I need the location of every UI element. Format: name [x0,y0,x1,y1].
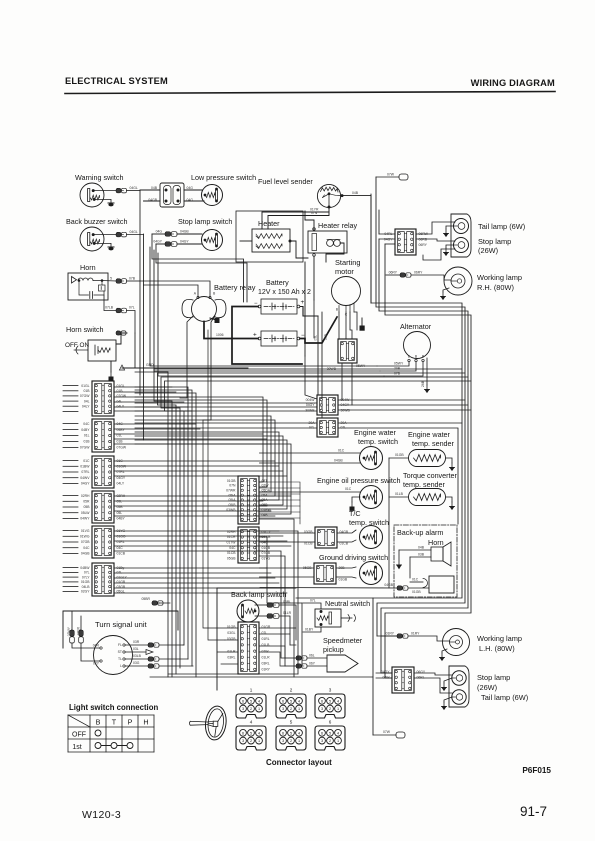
svg-text:07WR: 07WR [226,489,236,493]
tail lamp 6W bottom [452,690,528,704]
svg-text:01CB: 01CB [227,551,236,555]
connector box low pressure switch [148,183,193,207]
svg-text:6: 6 [321,699,323,703]
svg-text:1: 1 [337,739,339,743]
svg-text:3: 3 [282,739,284,743]
svg-text:05WY: 05WY [394,362,404,366]
working lamp LH [443,629,523,656]
svg-text:03L: 03L [133,647,139,651]
low pressure switch [191,173,256,206]
engine water temp sender [408,430,455,467]
svg-text:01LR: 01LR [227,649,236,653]
wire left block horizontal feeders [114,387,291,593]
connector block left y419 [80,419,127,452]
svg-text:01BW: 01BW [80,465,90,469]
svg-text:04B: 04B [418,546,425,550]
connector back lamp wire 2 [255,611,292,618]
svg-text:01CB: 01CB [117,552,126,556]
warning switch [75,173,123,207]
svg-text:Starting: Starting [335,258,360,267]
svg-text:OFF ON: OFF ON [65,342,90,349]
heater relay [308,221,358,256]
svg-text:Engine water: Engine water [408,430,451,439]
svg-text:Light switch connection: Light switch connection [69,703,158,712]
connector on stop lamp wire 2 [153,240,189,247]
svg-text:04C: 04C [117,546,124,550]
svg-text:T/C: T/C [349,509,361,518]
svg-text:1: 1 [298,707,300,711]
svg-text:07LY: 07LY [82,575,90,579]
svg-text:04GB: 04GB [81,552,90,556]
svg-text:Stop lamp: Stop lamp [477,673,510,682]
wire battery relay coil leads up-left [144,285,199,297]
wire stop lamp bus drops [152,234,244,302]
svg-text:04GB: 04GB [180,230,189,234]
svg-text:Stop lamp switch: Stop lamp switch [178,217,232,226]
engine oil pressure switch [317,476,401,509]
svg-text:07N: 07N [311,211,318,215]
svg-text:6: 6 [282,699,284,703]
svg-text:04GY: 04GY [180,240,189,244]
back-up alarm enclosure [394,525,457,597]
wire 07W stub top [376,173,408,181]
svg-text:3: 3 [282,707,284,711]
svg-text:4: 4 [337,731,339,735]
svg-text:04BY: 04BY [117,517,126,521]
svg-text:01VG: 01VG [81,529,90,533]
svg-text:2: 2 [329,739,331,743]
svg-text:1: 1 [258,707,260,711]
svg-text:07N: 07N [229,484,236,488]
svg-text:01B: 01B [117,440,124,444]
wire heater relay bottom down [313,256,315,300]
svg-text:05B: 05B [83,505,90,509]
svg-text:01RY: 01RY [411,632,420,636]
wire central lower block risers to bottom area [260,519,295,677]
svg-text:04R: 04R [93,644,100,648]
svg-text:01RY: 01RY [386,632,395,636]
svg-text:pickup: pickup [323,645,344,654]
heater [252,219,291,252]
wire misc crossing verticals [208,330,225,640]
svg-text:04GY: 04GY [153,240,162,244]
svg-text:03WY: 03WY [67,626,71,636]
T/C temp switch [349,509,389,549]
wire neutral switch output coupling [341,615,356,622]
connector block mid-right upper [305,395,350,415]
neutral switch [315,599,370,627]
connector layout block 5 [276,720,306,751]
wire speedmeter to bus [285,657,296,659]
connector back lamp wire 1 [255,600,291,607]
speedmeter pickup [323,636,363,672]
svg-text:T: T [112,718,117,727]
wire warning switch connector to bus [127,190,141,192]
connector block left y491 [80,491,125,523]
svg-text:06Y: 06Y [309,662,316,666]
wire ground driving switch leads [336,567,356,568]
svg-text:07L: 07L [310,599,316,603]
svg-text:1: 1 [337,707,339,711]
svg-text:04G: 04G [156,230,163,234]
svg-text:07GW: 07GW [80,446,90,450]
connector working lamp LH wire [386,632,421,639]
wire central block right feeders [260,482,301,524]
svg-text:01GLY: 01GLY [117,575,128,579]
wire horn connector to down bus [127,311,136,334]
wire turn signal left leads [72,643,100,648]
svg-text:5: 5 [250,731,252,735]
connector block back lamp area [227,622,271,674]
svg-text:04C: 04C [83,546,90,550]
wire horn upper output [102,277,116,282]
svg-text:3: 3 [321,707,323,711]
svg-text:04GL: 04GL [130,230,138,234]
svg-text:05IA: 05IA [229,498,237,502]
connector above turn signal [142,597,170,605]
wire risers to mid-right connector [317,316,319,395]
stop lamp switch [178,217,232,251]
svg-text:01LR: 01LR [283,611,292,615]
svg-text:01C: 01C [83,459,90,463]
svg-text:(26W): (26W) [477,683,497,692]
node A ground bus [119,363,248,370]
wire bus top-left verticals [139,190,141,395]
svg-text:5: 5 [250,699,252,703]
tail/stop lamp housing right top [451,214,471,257]
turn signal unit box [63,611,178,648]
svg-text:07LB: 07LB [105,306,114,310]
svg-text:Back lamp switch: Back lamp switch [231,590,287,599]
wire bottom lamp area left feeds [296,597,373,599]
connector block left y563 [80,563,127,596]
svg-text:06RY: 06RY [419,243,428,247]
connector layout block 4 [236,720,266,751]
svg-text:07B: 07B [129,277,136,281]
svg-text:Working lamp: Working lamp [477,634,522,643]
wire neutral-speedmeter left bus [301,603,303,666]
svg-text:03LB: 03LB [133,654,142,658]
horn switch [65,325,116,361]
svg-text:01CB: 01CB [262,546,271,550]
svg-text:01RL: 01RL [262,637,270,641]
svg-text:04G: 04G [187,186,194,190]
wire tail lamp feeds [416,222,455,234]
ground stop lamp right [444,245,454,255]
svg-text:Torque converter: Torque converter [403,471,458,480]
wire right highway bundle [371,177,471,735]
svg-text:temp. sender: temp. sender [412,439,455,448]
svg-text:01C: 01C [412,578,419,582]
starting motor [332,258,361,317]
svg-text:L: L [120,664,122,668]
fuse turn signal 1 [67,626,74,643]
wire right top connector feeds [379,233,395,235]
svg-text:03G: 03G [133,661,140,665]
svg-text:06RY: 06RY [389,271,398,275]
svg-text:07L: 07L [117,571,123,575]
svg-text:02RH: 02RH [227,530,236,534]
engine water temp switch [354,428,398,470]
svg-text:01C: 01C [345,487,352,491]
wire alternator B lead [380,362,416,371]
wire engine oil pressure switch lead [260,487,361,492]
svg-text:Low pressure switch: Low pressure switch [191,173,256,182]
svg-text:01GB: 01GB [339,578,348,582]
svg-text:Horn: Horn [80,263,96,272]
svg-text:04B: 04B [352,191,359,195]
svg-text:05LW: 05LW [81,511,90,515]
connector T/C temp switch [304,527,349,548]
wire alternator R lead [384,362,423,376]
svg-text:09L: 09L [117,500,123,504]
svg-text:Horn: Horn [428,538,444,547]
svg-text:Ground driving switch: Ground driving switch [319,553,388,562]
svg-text:01B: 01B [83,440,90,444]
svg-text:02Y: 02Y [93,662,100,666]
working lamp RH [444,267,522,295]
wire turn signal outputs join bundle [183,644,184,646]
ground horn switch [109,361,113,380]
connector block center upper [226,476,272,524]
back buzzer switch [66,217,128,251]
svg-text:5: 5 [290,720,293,725]
svg-text:01GB: 01GB [412,590,421,594]
svg-text:5: 5 [290,731,292,735]
wire bundle center verticals [135,397,291,514]
wire battery B1 positive riser [300,307,318,317]
svg-text:07W: 07W [383,730,391,734]
wire horn to horn switch [104,295,116,311]
svg-text:04BY: 04BY [117,428,126,432]
battery B1 12V [254,278,311,314]
svg-text:2: 2 [290,739,292,743]
wire torque converter sender lead [389,492,408,497]
svg-text:07L: 07L [129,306,135,310]
svg-text:6: 6 [242,699,244,703]
wire bottom bus to right [150,676,373,678]
svg-text:04GY: 04GY [81,482,90,486]
svg-text:H: H [143,718,148,727]
svg-text:6: 6 [329,720,332,725]
svg-text:07GB: 07GB [81,540,90,544]
horn back-up alarm [428,538,451,566]
svg-text:Tail lamp (6W): Tail lamp (6W) [481,693,528,702]
svg-text:6: 6 [242,731,244,735]
back lamp switch enclosure [217,588,296,690]
steering wheel [189,705,228,741]
wire back buzzer to connector [93,234,116,236]
wire back-up alarm horn leads [399,546,431,579]
svg-text:3: 3 [321,739,323,743]
svg-text:03RL: 03RL [262,661,270,665]
svg-text:01GL: 01GL [81,384,89,388]
svg-text:01WG: 01WG [80,535,90,539]
svg-text:05L: 05L [117,511,123,515]
svg-text:2: 2 [250,739,252,743]
svg-text:2: 2 [290,707,292,711]
svg-text:07B: 07B [324,333,328,340]
wire mid-right lower block spans [135,422,317,424]
wire stubs left of connector blocks [63,386,78,592]
ground tail lamp bottom [442,697,452,709]
svg-text:01L: 01L [84,434,90,438]
wire alternator ground lead 26B [421,358,427,387]
svg-text:(26W): (26W) [478,246,498,255]
connector starting motor [338,339,357,363]
svg-text:Warning switch: Warning switch [75,173,123,182]
svg-text:02GY: 02GY [81,590,90,594]
battery B2 12V [253,331,305,346]
wire battery relay lower leads down [187,316,193,380]
wire back lamp block feeders [260,627,297,629]
connector ground driving switch [303,563,348,584]
svg-text:+: + [301,299,305,306]
svg-text:01YG: 01YG [262,557,271,561]
svg-text:01B: 01B [117,389,124,393]
fuel level sender [258,177,341,208]
svg-text:01GB: 01GB [117,580,126,584]
svg-text:Heater: Heater [258,219,280,228]
svg-text:07B: 07B [394,372,401,376]
svg-text:ST: ST [118,650,122,654]
svg-text:1006: 1006 [216,333,224,337]
svg-text:05IA: 05IA [229,493,237,497]
svg-text:01GG: 01GG [117,535,126,539]
wire starting motor connector leads [327,363,366,405]
svg-text:2: 2 [250,707,252,711]
svg-text:01GW: 01GW [117,465,127,469]
svg-text:WIRING DIAGRAM: WIRING DIAGRAM [471,78,555,88]
connector turn signal FL [125,640,183,647]
svg-text:P: P [128,718,133,727]
svg-text:2: 2 [290,688,293,693]
svg-text:04C: 04C [229,546,236,550]
svg-text:TL: TL [118,657,122,661]
svg-text:07GB: 07GB [262,551,271,555]
torque converter temp sender [403,471,458,506]
connector on horn wire [105,306,135,313]
svg-text:20B: 20B [394,367,401,371]
fuse turn signal 2 [77,626,84,643]
wire heater relay coil to bus [326,243,344,262]
svg-text:Back-up alarm: Back-up alarm [397,528,443,537]
svg-text:04BY: 04BY [81,428,90,432]
svg-text:05GB: 05GB [227,557,236,561]
svg-text:6: 6 [321,731,323,735]
ground warning switch [94,199,114,206]
svg-text:04LY: 04LY [117,482,125,486]
wire battery relay to battery B2 positive 1006 [204,322,258,339]
wire bottom connector feeds [376,672,392,674]
connector layout block 2 [276,688,306,719]
connector block right top [384,229,429,255]
ground tail lamp right [444,226,454,236]
svg-text:3: 3 [242,739,244,743]
svg-text:OFF: OFF [72,732,86,739]
wire back-up alarm controller leads [260,578,429,595]
connector speedmeter wire 2 [296,662,327,669]
svg-text:P6F015: P6F015 [522,766,551,775]
svg-text:07GW: 07GW [80,394,90,398]
svg-text:07L: 07L [84,571,90,575]
ground working lamp RH [441,288,449,299]
arrow turn signal ST [125,647,153,655]
wire starting motor terminals down [338,312,340,339]
svg-text:4: 4 [258,731,260,735]
svg-text:02RH: 02RH [81,494,90,498]
svg-text:03R: 03R [133,640,140,644]
svg-text:temp. sender: temp. sender [403,480,446,489]
svg-text:01LB: 01LB [262,643,271,647]
tail lamp 6W right [454,219,526,234]
svg-text:Horn switch: Horn switch [66,325,104,334]
ground torque converter sender [446,497,454,509]
connector on horn switch wire [116,331,127,344]
ground starting motor [360,318,364,330]
wire back buzzer connector to bus [127,234,144,236]
horn [68,263,108,300]
header rule [65,92,555,94]
svg-text:Alternator: Alternator [400,322,432,331]
svg-text:1: 1 [258,739,260,743]
svg-text:01C: 01C [338,449,345,453]
ground engine water temp sender [446,458,454,470]
wire working lamp RH feed [386,274,400,276]
connector block left y381 [80,381,127,416]
svg-text:4: 4 [258,699,260,703]
svg-text:04BW: 04BW [80,566,90,570]
wire battery B1 negative loop [232,307,302,365]
stop/tail lamp housing bottom [449,666,469,707]
svg-text:Engine oil pressure switch: Engine oil pressure switch [317,476,401,485]
svg-text:Battery relay: Battery relay [214,283,256,292]
svg-text:004W: 004W [306,398,316,402]
ground working lamp LH [440,649,447,660]
connector on horn upper wire [116,277,140,284]
svg-text:ELECTRICAL SYSTEM: ELECTRICAL SYSTEM [65,76,168,86]
svg-text:07W: 07W [387,173,395,177]
svg-text:03GB: 03GB [227,637,236,641]
svg-text:07W: 07W [262,649,270,653]
svg-text:05R: 05R [83,500,90,504]
light switch connection table [68,703,158,752]
connector on stop lamp wire 1 [156,230,190,237]
ground driving switch [319,553,388,585]
svg-text:Tail lamp (6W): Tail lamp (6W) [478,222,525,231]
svg-text:04B: 04B [151,186,158,190]
svg-text:04L: 04L [117,399,123,403]
wire bundle center-left verticals [135,369,471,677]
svg-text:06L: 06L [309,654,315,658]
svg-text:04GB: 04GB [334,459,343,463]
svg-text:Connector layout: Connector layout [266,758,332,767]
connector block bottom right [381,667,426,693]
svg-text:04LB: 04LB [82,585,91,589]
ground stop lamp bottom [442,678,452,690]
svg-text:07GW: 07GW [117,394,127,398]
svg-text:04LY: 04LY [82,404,90,408]
wire low pressure connector to bus [140,189,160,191]
svg-text:01GB: 01GB [395,453,404,457]
svg-text:04L: 04L [84,399,90,403]
svg-text:5: 5 [329,699,331,703]
svg-text:03GL: 03GL [227,631,235,635]
svg-text:05IB: 05IB [229,503,237,507]
svg-text:B: B [96,718,101,727]
svg-text:03LR: 03LR [77,626,81,635]
connector block mid-right lower [308,418,347,437]
